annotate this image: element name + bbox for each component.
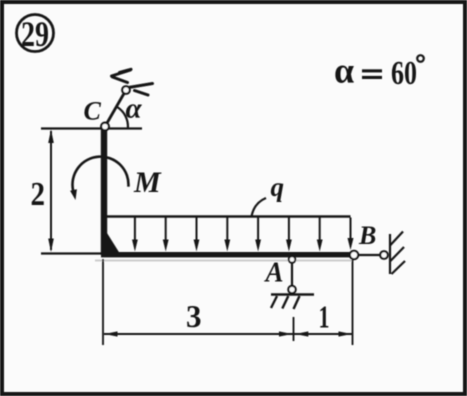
pin A lower	[288, 286, 295, 293]
extension line below A	[293, 317, 295, 341]
dimension 2 top arrowhead	[48, 130, 54, 144]
bottom dimension line	[104, 333, 352, 335]
extension line below left end	[102, 259, 104, 345]
pin B	[350, 251, 358, 259]
ground hatch 3 at A	[294, 296, 300, 309]
svg-text:60: 60	[391, 55, 417, 92]
dim arrow left of 3	[105, 331, 118, 336]
ground hatch 1 at A	[271, 296, 277, 308]
svg-text:29: 29	[21, 14, 49, 54]
bottom reference line at beam level	[41, 252, 101, 254]
beam	[101, 252, 351, 257]
dim arrow right of 1	[339, 331, 352, 336]
wall anchor hatching at top of rod	[112, 69, 153, 95]
load arrow 3	[194, 218, 200, 252]
wall line at B	[389, 234, 391, 274]
pin A upper	[289, 256, 296, 263]
corner fillet	[107, 233, 120, 253]
angle value label alpha = 60 deg	[334, 51, 424, 93]
support rod at C	[105, 90, 126, 127]
distributed load top line	[107, 215, 351, 217]
wall hatch 2 at B	[390, 247, 404, 261]
svg-text:2: 2	[31, 176, 46, 213]
extension line below B	[352, 260, 354, 345]
dimension 2 bottom arrowhead	[48, 239, 54, 253]
load arrow 8 at right edge	[348, 218, 354, 251]
load arrow 1	[132, 218, 138, 252]
ground line at A	[271, 293, 314, 295]
svg-text:B: B	[358, 221, 376, 250]
wall hatch 3 at B	[392, 261, 406, 274]
dim arrow left of 1	[295, 331, 308, 336]
problem number badge 29	[17, 14, 54, 54]
load arrow 4	[224, 218, 230, 252]
angle arc alpha at C	[117, 107, 128, 128]
load arrow 5	[255, 218, 261, 252]
svg-text:M: M	[133, 166, 162, 199]
svg-text:α: α	[334, 51, 354, 91]
svg-text:α: α	[126, 93, 143, 125]
wall hatch 1 at B	[390, 232, 403, 246]
scan shadow line under beam	[95, 260, 352, 262]
dimension 2 vertical line	[50, 131, 52, 250]
vertical column bar	[101, 130, 107, 256]
svg-text:q: q	[271, 172, 285, 202]
pin at wall end of rod	[122, 86, 130, 94]
link rod at A	[291, 262, 293, 286]
svg-text:C: C	[84, 97, 102, 126]
moment arc M	[72, 157, 128, 191]
load arrow 7	[317, 218, 323, 252]
link rod at B	[359, 254, 380, 256]
svg-text:3: 3	[186, 298, 202, 334]
load arrow 2	[163, 218, 169, 252]
svg-text:A: A	[264, 258, 284, 289]
ground hatch 2 at A	[282, 296, 288, 309]
top reference line at C level	[41, 127, 142, 129]
svg-text:1: 1	[319, 299, 330, 335]
leader line for q	[252, 198, 267, 217]
pin C	[101, 123, 109, 131]
moment arrowhead	[70, 189, 77, 200]
dim arrow right of 3	[279, 331, 292, 336]
pin at wall B	[380, 251, 388, 259]
load arrow 6	[286, 218, 292, 252]
